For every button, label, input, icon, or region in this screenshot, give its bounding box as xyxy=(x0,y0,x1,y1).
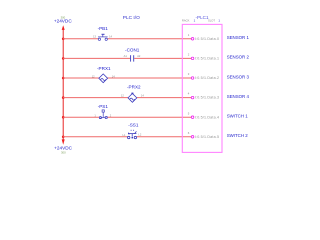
wire row6 left xyxy=(63,136,127,138)
proximity sensor PRX1 xyxy=(99,74,108,83)
wire row1 left xyxy=(63,38,98,40)
PLC pin row5 xyxy=(188,111,219,119)
PLC pin row2 xyxy=(188,53,219,61)
wire row3 right xyxy=(108,77,192,79)
svg-text:-PB1: -PB1 xyxy=(98,26,109,31)
pushbutton PB1 xyxy=(98,34,108,40)
svg-text:I:0.5/1.Data.5: I:0.5/1.Data.5 xyxy=(195,135,219,139)
svg-text:I:0.5/1.Data.2: I:0.5/1.Data.2 xyxy=(195,76,219,80)
svg-text:I:0.5/1.Data.1: I:0.5/1.Data.1 xyxy=(195,57,219,61)
junction row1 xyxy=(62,38,65,41)
wire row2 right xyxy=(134,57,191,59)
svg-text:-PS1: -PS1 xyxy=(98,104,109,109)
wire row1 right xyxy=(107,38,191,40)
power arrow bottom xyxy=(62,139,65,144)
PLC pin row3 xyxy=(188,72,219,80)
svg-text:I:0.5/1.Data.4: I:0.5/1.Data.4 xyxy=(195,115,219,119)
svg-text:-PRX2: -PRX2 xyxy=(127,84,141,89)
svg-text:SENSOR 1: SENSOR 1 xyxy=(227,35,250,40)
power arrow top xyxy=(62,25,65,30)
PLC pin row6 xyxy=(188,131,219,139)
selector switch SS1 xyxy=(128,130,137,139)
svg-text:-PLC1: -PLC1 xyxy=(195,15,208,20)
svg-text:SENSOR 4: SENSOR 4 xyxy=(227,94,250,99)
wire row4 right xyxy=(137,97,192,99)
wire: left vertical rail xyxy=(62,29,64,137)
svg-text:SENSOR 3: SENSOR 3 xyxy=(227,74,250,79)
svg-text:+24VDC: +24VDC xyxy=(54,19,72,24)
PLC pin row1 xyxy=(188,33,219,41)
svg-text:SWITCH 2: SWITCH 2 xyxy=(227,133,249,138)
PLC pin row4 xyxy=(188,92,219,100)
svg-text:-SS1: -SS1 xyxy=(128,122,139,127)
pressure switch PS1 xyxy=(99,110,107,119)
junction row2 xyxy=(62,57,65,60)
junction row3 xyxy=(62,77,65,80)
junction row6 xyxy=(62,136,65,139)
svg-text:SWITCH 1: SWITCH 1 xyxy=(227,114,249,119)
svg-text:I:0.5/1.Data.3: I:0.5/1.Data.3 xyxy=(195,96,219,100)
svg-text:300: 300 xyxy=(61,150,66,154)
wire row3 left xyxy=(63,77,99,79)
wire row6 right xyxy=(137,136,191,138)
svg-text:-PRX1: -PRX1 xyxy=(97,66,111,71)
svg-text:PLC I/O: PLC I/O xyxy=(123,15,140,21)
wire row5 left xyxy=(63,116,99,118)
svg-text:RACK: RACK xyxy=(182,19,190,23)
svg-text:SLOT: SLOT xyxy=(208,19,215,23)
junction row5 xyxy=(62,116,65,119)
svg-text:SENSOR 2: SENSOR 2 xyxy=(227,55,250,60)
svg-text:-CON1: -CON1 xyxy=(125,48,140,53)
wire row5 right xyxy=(108,116,192,118)
PLC module box PLC1 xyxy=(182,24,222,152)
junction row4 xyxy=(62,96,65,99)
wire row2 left xyxy=(63,57,130,59)
svg-text:A1: A1 xyxy=(124,54,128,58)
connector CON1 xyxy=(131,55,134,61)
svg-text:A2: A2 xyxy=(137,54,141,58)
wire row4 left xyxy=(63,97,128,99)
proximity sensor PRX2 xyxy=(128,93,137,103)
svg-text:I:0.5/1.Data.0: I:0.5/1.Data.0 xyxy=(195,37,219,41)
